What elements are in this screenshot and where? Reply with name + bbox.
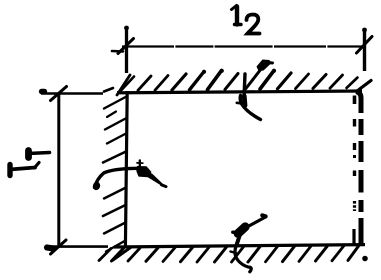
dimension line l1: [57, 93, 60, 247]
label l2: [232, 6, 260, 34]
l2 left tick: [112, 39, 134, 54]
left wall hatching: [103, 97, 131, 261]
bottom wall line: [114, 245, 365, 247]
right wall inner ticks: [352, 96, 356, 246]
l1 top tick: [42, 87, 67, 101]
arrow through top wall: [237, 60, 273, 120]
top wall hatching: [104, 69, 371, 95]
top wall line: [117, 91, 362, 93]
l1 bottom extension line: [46, 245, 108, 248]
l2 left extension line: [125, 26, 128, 73]
l1 top extension line: [41, 92, 103, 95]
arrow through left wall: [92, 161, 166, 192]
bottom wall hatching: [99, 245, 359, 262]
l1 bottom tick: [47, 240, 66, 254]
arrow through bottom wall: [231, 215, 266, 271]
label l1 (rotated): [10, 151, 50, 176]
left wall line: [125, 91, 127, 248]
l2 right tick: [357, 37, 373, 54]
l2 right extension line: [363, 28, 366, 71]
right wall dashed line: [356, 92, 361, 247]
bottom right dot: [362, 256, 368, 262]
dimension line l2: [122, 45, 364, 47]
